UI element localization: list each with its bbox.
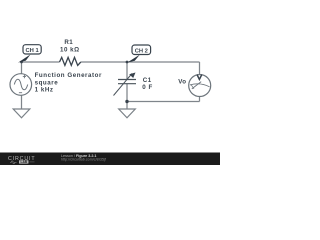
svg-text:LAB: LAB	[21, 160, 28, 164]
logo trailing dash	[30, 161, 35, 163]
resistor R1	[60, 57, 81, 65]
sine wave inside V1	[14, 79, 27, 90]
ground right	[119, 109, 136, 118]
footer bar	[0, 153, 220, 166]
logo waveform	[10, 161, 17, 164]
wire right vertical top (to voltmeter top)	[199, 62, 201, 75]
svg-text:R1: R1	[64, 39, 73, 46]
svg-text:http://circuitlab.com/c/8r35jf: http://circuitlab.com/c/8r35jf	[61, 157, 107, 161]
node dot CH1	[20, 61, 23, 64]
capacitor C1 plate bottom	[118, 83, 136, 85]
svg-text:0 F: 0 F	[142, 84, 152, 91]
wire bottom horizontal (node to voltmeter bottom)	[127, 101, 200, 103]
variable capacitor arrow	[114, 74, 133, 96]
function generator V1 circle	[10, 74, 32, 96]
svg-text:Function Generator: Function Generator	[35, 72, 102, 79]
voltmeter tick	[191, 84, 194, 89]
probe flag CH1	[18, 54, 31, 62]
svg-text:1 kHz: 1 kHz	[35, 87, 54, 94]
probe flag CH2	[127, 55, 140, 63]
wire top-left horizontal (node to R1)	[22, 61, 60, 63]
wire C1 bottom to ground node	[126, 84, 128, 109]
svg-text:10 kΩ: 10 kΩ	[60, 46, 80, 53]
capacitor C1 plate top	[118, 79, 136, 81]
wire left vertical (node down to V1 top)	[21, 62, 23, 74]
wire right vertical bottom (voltmeter to bottom wire)	[199, 96, 201, 101]
ground left	[13, 109, 30, 118]
plus sign	[23, 75, 26, 78]
junction dot bottom node	[125, 100, 128, 103]
svg-text:CH 2: CH 2	[135, 48, 148, 54]
wire top-right horizontal (R1 to voltmeter corner)	[81, 61, 200, 63]
voltmeter needle	[192, 82, 201, 89]
voltmeter M1 circle	[189, 75, 211, 97]
logo LAB box	[19, 160, 29, 163]
voltmeter scale arc	[190, 84, 210, 87]
voltmeter V letter	[197, 75, 202, 80]
wire V1 bottom to ground	[21, 95, 23, 109]
svg-text:CH 1: CH 1	[25, 48, 39, 54]
wire CH2 node down to C1 top	[126, 62, 128, 79]
probe bubble CH2	[132, 45, 151, 55]
probe bubble CH1	[23, 45, 41, 54]
svg-text:C1: C1	[143, 77, 152, 84]
minus sign	[19, 92, 22, 94]
svg-text:square: square	[35, 79, 59, 86]
svg-text:Vo: Vo	[178, 79, 186, 86]
node dot CH2	[126, 61, 129, 64]
